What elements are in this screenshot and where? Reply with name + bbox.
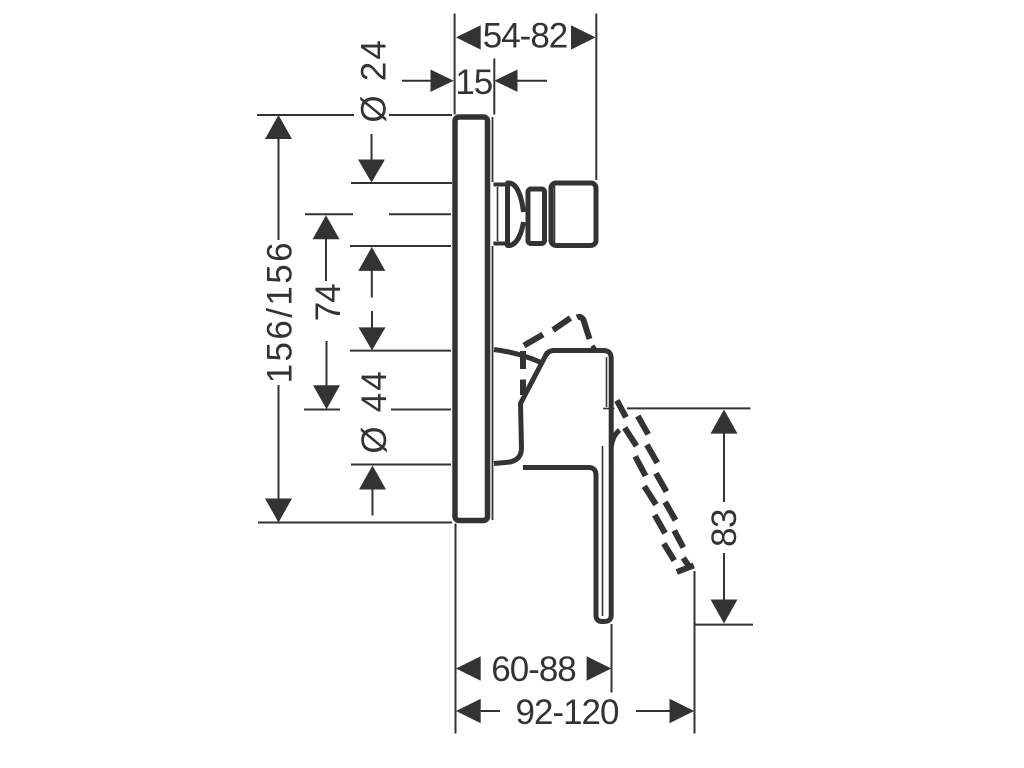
dimension 156/156 top arrow [265, 115, 292, 139]
dashed lever end cap [677, 566, 694, 573]
wall surface line x492.5 upper [492, 117, 494, 182]
handle body and lever outline [523, 351, 611, 622]
dashed hub front vertical dash 1 [520, 351, 526, 369]
svg-text:Ø 24: Ø 24 [355, 38, 394, 123]
dimension 15 right arrow [494, 70, 517, 92]
extension line plate-bottom y522.5 [258, 522, 452, 524]
handle hub top arc [494, 350, 541, 363]
dimension 60-88 right arrow [587, 656, 612, 680]
svg-text:92-120: 92-120 [516, 693, 620, 732]
dimension 92-120 left arrow [456, 699, 481, 723]
dimension 92-120 left stub [481, 710, 500, 712]
lever inner line [602, 446, 604, 616]
dimension Ø24 upper shaft [371, 134, 373, 161]
dimension 92-120 right shaft [636, 710, 671, 712]
dimension 92-120 right arrow [670, 699, 695, 723]
wedge inner line [606, 357, 608, 407]
pipe nipple end block [551, 183, 596, 246]
dimension Ø24 down arrow [358, 160, 385, 183]
pipe nipple cone inner line [508, 186, 510, 242]
svg-text:60-88: 60-88 [491, 650, 576, 689]
pipe nipple neck [494, 185, 508, 244]
extension line hub-bottom y464.5 [351, 464, 451, 466]
pivot tick [603, 408, 615, 410]
extension line lever-end vertical x611.5 [611, 624, 613, 693]
dimension 83 bottom line y624.6 [694, 624, 754, 626]
wall plate cross-section [455, 117, 488, 521]
dashed hub front dash [524, 335, 543, 346]
dashed lever top corner dash [577, 317, 590, 339]
extension line plate-top y115 [257, 114, 354, 116]
dimension 156/156 upper shaft [278, 139, 280, 240]
dashed lever front edge [617, 400, 674, 560]
dimension 83 upper shaft [723, 433, 725, 502]
dimension Ø44 down arrow [359, 327, 386, 350]
extension line pipe-axis y214.3 [305, 213, 353, 215]
dimension 15 right shaft [518, 80, 548, 82]
dimension 54-82 right arrow [571, 25, 596, 49]
dimension 83 up arrow [711, 410, 738, 434]
dashed lever top cap dash 1 [553, 318, 571, 330]
extension line 15 right vertical x494.3 [493, 59, 495, 115]
dimension 60-88 left arrow [456, 656, 481, 680]
svg-text:15: 15 [455, 63, 492, 102]
dimension 74 top arrow [313, 215, 340, 239]
dimension 15 left arrow [431, 70, 454, 92]
dimension 83 lower shaft [723, 553, 725, 601]
pipe nipple ring [528, 189, 545, 244]
svg-text:54-82: 54-82 [483, 17, 568, 56]
dashed lever back edge [638, 416, 691, 569]
extension line top-right vertical x596.3 [595, 14, 597, 181]
dimension 83 down arrow [711, 600, 738, 624]
dimension Ø44 lower shaft [372, 488, 374, 516]
dashed hub front vertical dash 2 [520, 380, 526, 396]
dimension Ø44 up arrow [359, 466, 386, 490]
dashed back edge peek dash [592, 346, 596, 348]
dimension 15 left shaft [402, 80, 431, 82]
extension line dashed-lever-end vertical x694.5 [694, 571, 696, 734]
dimension 83 top line y408.4 [627, 407, 751, 409]
extension line bottom-left vertical x455.5 [455, 524, 457, 734]
solid arc at dashed lever root [611, 430, 619, 447]
pipe nipple cone [508, 183, 524, 246]
dimension 54-82 left arrow [456, 25, 481, 49]
svg-text:Ø 44: Ø 44 [355, 369, 394, 454]
extension line handle-axis y409.5 [304, 409, 340, 411]
wall surface line x492.5 lower [492, 246, 494, 520]
dimension 74 lower shaft [326, 341, 328, 387]
dimension Ø24 up arrow [358, 247, 385, 271]
dimension 156/156 bottom arrow [265, 499, 292, 523]
pipe nipple neck inner line [497, 187, 499, 241]
dimension 74 bottom arrow [313, 385, 340, 409]
dimension 74 upper shaft [325, 239, 327, 281]
extension line hub-top y350.6 [350, 350, 451, 352]
svg-text:156/156: 156/156 [261, 240, 300, 383]
dimension Ø24 lower shaft [371, 270, 373, 298]
svg-text:83: 83 [705, 509, 744, 547]
dimension Ø44 upper shaft [371, 311, 373, 329]
extension line nipple-bottom y246 [350, 245, 451, 247]
dimension 156/156 lower shaft [278, 385, 280, 499]
pipe nipple end block inner line [554, 186, 556, 243]
extension line top-left vertical x454.6 [454, 14, 456, 115]
extension line nipple-top y183 [351, 182, 452, 184]
handle hub front outline [494, 352, 548, 464]
svg-text:74: 74 [309, 284, 348, 321]
